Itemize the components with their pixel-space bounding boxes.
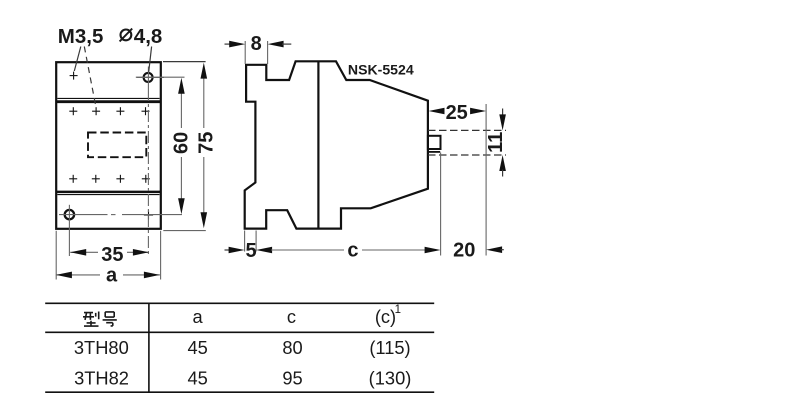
dimension 35 line (70, 251, 98, 253)
svg-text:60: 60 (170, 132, 192, 154)
table column divider (148, 303, 150, 392)
svg-text:(130): (130) (369, 367, 412, 388)
svg-text:8: 8 (251, 33, 262, 55)
svg-text:11: 11 (485, 132, 507, 153)
svg-text:45: 45 (188, 367, 208, 388)
svg-text:c: c (347, 239, 358, 261)
table header rule (45, 331, 434, 333)
mounting hole top right circle (144, 73, 153, 82)
front view divider line lower thick (56, 191, 161, 194)
svg-text:M3,5: M3,5 (58, 25, 104, 48)
dashed line lower 11 (428, 154, 506, 156)
svg-text:45: 45 (188, 337, 208, 358)
svg-text:(c): (c) (375, 306, 396, 327)
svg-text:a: a (106, 264, 118, 286)
table header xinghao (model) CJK strokes (83, 312, 117, 327)
dashed line upper 11 (428, 129, 506, 131)
dimension a line (56, 274, 100, 276)
svg-text:NSK-5524: NSK-5524 (348, 61, 414, 77)
svg-text:a: a (193, 306, 204, 327)
svg-text:5: 5 (245, 240, 256, 262)
side view internal vertical line (317, 61, 319, 228)
dimension 20 arrow (486, 246, 502, 253)
dimension 75 line (203, 77, 205, 128)
extension line a right (160, 231, 162, 280)
front view body outline (56, 62, 161, 229)
terminal box (428, 136, 441, 149)
extension line 75 bottom (163, 230, 206, 232)
svg-text:1: 1 (395, 304, 401, 316)
extension line 60 top (136, 76, 185, 78)
screw cross row1 (69, 110, 77, 112)
dimension 5 arrows (225, 249, 231, 251)
svg-text:25: 25 (446, 102, 468, 124)
svg-text:(115): (115) (369, 337, 410, 358)
mounting hole bottom left circle (65, 210, 74, 219)
label diameter 4,8 (121, 30, 132, 41)
extension line 20 right (485, 104, 487, 256)
centerline horizontal top hole (137, 76, 165, 78)
svg-text:3TH82: 3TH82 (74, 367, 129, 388)
screw cross top band (70, 75, 78, 77)
dimension 11 arrows (502, 109, 504, 116)
svg-text:75: 75 (195, 132, 217, 154)
front view divider line upper thick (56, 100, 161, 103)
extension line a left (55, 231, 57, 280)
centerline vertical through top hole (147, 67, 149, 90)
svg-text:95: 95 (282, 367, 302, 388)
dimension 5 extension lines (244, 231, 246, 252)
terminal lower bar (428, 151, 440, 153)
dimension 60 line (180, 90, 182, 128)
table bottom rule (45, 391, 434, 393)
screw cross row2 (69, 178, 77, 180)
centerline horizontal bottom hole (59, 214, 108, 216)
extension line 75 top (163, 61, 206, 63)
dimension 8 extension lines (244, 41, 246, 64)
leader M3,5 to row1 cross (84, 47, 96, 107)
dimension c line (256, 247, 272, 254)
svg-text:4,8: 4,8 (134, 25, 163, 48)
front view divider line upper thin (57, 97, 159, 99)
extension line c right (440, 153, 442, 256)
dashed window rectangle (88, 133, 146, 158)
svg-text:20: 20 (453, 240, 475, 262)
cross second mounting hole position (144, 214, 153, 216)
svg-text:c: c (287, 306, 296, 327)
svg-text:3TH80: 3TH80 (74, 337, 129, 358)
centerline vertical bottom hole (68, 205, 70, 256)
dimension 8 arrows (225, 43, 232, 45)
side view profile outline (245, 61, 428, 228)
front view divider line lower thin (57, 194, 159, 196)
dimension 25 arrows (429, 108, 445, 115)
leader 4,8 to top hole (149, 47, 152, 72)
svg-text:35: 35 (101, 244, 123, 266)
leader M3,5 to top cross (74, 47, 81, 72)
table top rule (45, 302, 434, 304)
svg-text:80: 80 (282, 337, 302, 358)
